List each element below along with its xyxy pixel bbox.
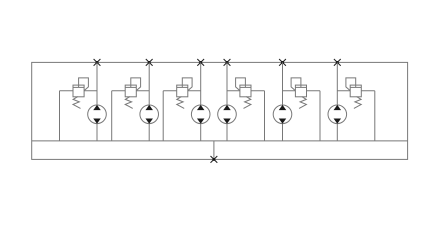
pump M3 flow triangle up: [197, 105, 205, 110]
wire: section 2 riser above pump: [148, 62, 150, 105]
wire: section 6 riser above pump: [336, 62, 338, 105]
wire: section 2 drain leg: [111, 91, 113, 141]
wire: section 6 riser below pump: [336, 124, 338, 141]
relief valve RV1 body: [73, 85, 84, 97]
relief valve RV4 body: [240, 85, 251, 97]
relief valve RV1 pilot box: [79, 78, 89, 91]
relief valve RV6 spring: [354, 97, 361, 109]
relief valve RV6 body: [350, 85, 361, 97]
pump M5 flow triangle up: [279, 105, 287, 110]
relief valve RV4 cap line: [240, 86, 251, 88]
section 3: [163, 59, 210, 141]
pump M4 flow triangle up: [223, 105, 231, 110]
wire: section 5 riser above pump: [282, 62, 284, 105]
relief valve RV3 pilot box: [182, 78, 192, 91]
wire: section 2 riser below pump: [148, 124, 150, 141]
relief valve RV5 cap line: [295, 86, 306, 88]
wire: section 1 riser below pump: [96, 124, 98, 141]
metering pump M6 circle: [328, 105, 347, 124]
section 4: [218, 59, 265, 141]
section 6: [328, 59, 375, 141]
plugged port X, section 5 top: [279, 59, 286, 66]
internal gallery line (divider): [32, 140, 408, 142]
wire: section 3 relief branch: [163, 90, 201, 92]
wire: section 2 relief branch: [112, 90, 150, 92]
pump M5 flow triangle down: [279, 119, 287, 124]
relief valve RV2 body: [125, 85, 136, 97]
wire: section 5 drain leg: [319, 91, 321, 141]
wire: section 1 drain leg: [59, 91, 61, 141]
relief valve RV6 pilot box: [346, 78, 356, 91]
pump M6 flow triangle up: [334, 105, 342, 110]
wire: section 3 riser above pump: [200, 62, 202, 105]
relief valve RV3 spring: [177, 97, 184, 109]
metering pump M4 circle: [218, 105, 237, 124]
pump M6 flow triangle down: [334, 119, 342, 124]
metering pump M2 circle: [140, 105, 159, 124]
wire: section 5 riser below pump: [282, 124, 284, 141]
pump M3 flow triangle down: [197, 119, 205, 124]
relief valve RV5 spring: [299, 97, 306, 109]
wire: section 4 riser below pump: [226, 124, 228, 141]
relief valve RV3 body: [177, 85, 188, 97]
section 2: [112, 59, 159, 141]
wire: section 4 relief branch: [227, 90, 265, 92]
manifold outer body: [32, 62, 408, 159]
wire: section 6 drain leg: [374, 91, 376, 141]
relief valve RV5 body: [295, 85, 306, 97]
wire: section 3 riser below pump: [200, 124, 202, 141]
wire: section 4 riser above pump: [226, 62, 228, 105]
relief valve RV2 spring: [125, 97, 133, 109]
plugged port X, section 3 top: [197, 59, 204, 66]
metering pump M3 circle: [191, 105, 210, 124]
relief valve RV4 pilot box: [236, 78, 246, 91]
metering pump M5 circle: [273, 105, 292, 124]
relief valve RV4 spring: [244, 97, 251, 109]
wire: section 1 riser above pump: [96, 62, 98, 105]
wire: tank stub to bottom port: [213, 141, 215, 160]
relief valve RV2 pilot box: [131, 78, 141, 91]
plugged port X, section 6 top: [334, 59, 341, 66]
pump M2 flow triangle down: [145, 119, 153, 124]
wire: section 6 relief branch: [337, 90, 375, 92]
plugged port X, section 4 top: [224, 59, 231, 66]
relief valve RV1 spring: [73, 97, 81, 109]
pump M1 flow triangle up: [93, 105, 101, 110]
pump M2 flow triangle up: [145, 105, 153, 110]
plugged port X at bottom outlet T: [211, 156, 218, 163]
metering pump M1 circle: [88, 105, 107, 124]
relief valve RV5 pilot box: [291, 78, 301, 91]
relief valve RV1 cap line: [73, 86, 84, 88]
wire: section 5 relief branch: [283, 90, 321, 92]
section 1: [60, 59, 107, 141]
wire: section 4 drain leg: [264, 91, 266, 141]
wire: section 1 relief branch: [60, 90, 98, 92]
relief valve RV3 cap line: [177, 86, 188, 88]
wire: section 3 drain leg: [162, 91, 164, 141]
plugged port X, section 2 top: [146, 59, 153, 66]
pump M1 flow triangle down: [93, 119, 101, 124]
pump M4 flow triangle down: [223, 119, 231, 124]
plugged port X, section 1 top: [94, 59, 101, 66]
section 5: [273, 59, 320, 141]
relief valve RV6 cap line: [350, 86, 361, 88]
relief valve RV2 cap line: [125, 86, 136, 88]
